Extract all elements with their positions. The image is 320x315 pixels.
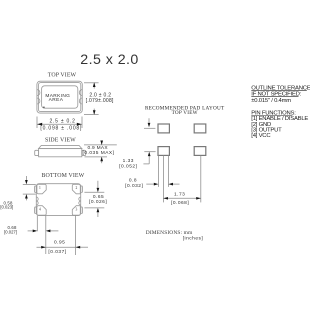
pad layout BL pad ext lines bbox=[157, 155, 159, 187]
bottom dim line bbox=[37, 123, 82, 125]
svg-text:2.5 ± 0.2: 2.5 ± 0.2 bbox=[50, 119, 76, 125]
0.95 dim lines bbox=[37, 246, 76, 248]
svg-text:AREA: AREA bbox=[49, 97, 64, 103]
pad layout BR pad bbox=[194, 147, 206, 156]
arrowhead left (2.5 dim) bbox=[37, 123, 42, 126]
bottom dim ext lines of top view bbox=[36, 117, 38, 129]
svg-text:TOP VIEW: TOP VIEW bbox=[48, 72, 77, 78]
1.73 dim line bbox=[163, 197, 200, 199]
svg-text:0.8: 0.8 bbox=[129, 178, 137, 184]
1.33 centerline + leader bbox=[144, 151, 155, 153]
svg-text:2: 2 bbox=[76, 186, 78, 190]
svg-text:4: 4 bbox=[39, 208, 41, 212]
svg-text:[0.068]: [0.068] bbox=[171, 200, 189, 206]
dim arrow stems bbox=[93, 83, 95, 89]
pad 4 bbox=[37, 206, 46, 216]
bottom view right tabs bbox=[81, 186, 83, 193]
0.68 arrowheads bbox=[33, 230, 38, 233]
underlines bbox=[251, 89, 306, 91]
top view inner outline bbox=[38, 83, 80, 112]
pad 3 bbox=[72, 206, 80, 216]
top view left castellation notches bbox=[37, 90, 40, 104]
0.8 dim lines bbox=[146, 183, 154, 185]
svg-text:±0.015" / 0.4mm: ±0.015" / 0.4mm bbox=[251, 98, 291, 104]
pad layout BR pad center line bbox=[200, 155, 202, 202]
top view right castellation notches bbox=[79, 90, 82, 104]
arrowhead down (2.0 dim) bbox=[93, 110, 96, 115]
top view outer body bbox=[37, 81, 82, 113]
svg-text:[inches]: [inches] bbox=[183, 236, 204, 242]
svg-text:2.5 x 2.0: 2.5 x 2.0 bbox=[80, 52, 138, 68]
svg-text:1: 1 bbox=[39, 186, 41, 190]
svg-text:1.73: 1.73 bbox=[174, 191, 185, 197]
top view marking area bbox=[42, 86, 78, 108]
svg-text:[0.026]: [0.026] bbox=[89, 199, 107, 205]
svg-text:SIDE VIEW: SIDE VIEW bbox=[45, 138, 76, 144]
svg-text:[.079±.008]: [.079±.008] bbox=[86, 98, 114, 104]
top-left centerline mark bbox=[148, 118, 150, 123]
side arrowhead down bbox=[100, 141, 103, 145]
svg-text:[4] VCC: [4] VCC bbox=[251, 133, 271, 139]
bottom view left notches bbox=[36, 197, 38, 205]
svg-text:[0.037]: [0.037] bbox=[48, 249, 66, 255]
svg-text:[0.032]: [0.032] bbox=[125, 183, 143, 189]
pad layout TL pad bbox=[158, 124, 169, 133]
svg-text:[0.098 ± .008]: [0.098 ± .008] bbox=[40, 126, 82, 132]
0.65 dim ext bbox=[84, 191, 104, 193]
0.65 arrowheads bbox=[97, 188, 100, 192]
bottom view right notches bbox=[79, 197, 81, 205]
centerline mark arrowhead bbox=[148, 123, 151, 127]
side view right tab bbox=[82, 150, 86, 155]
bottom view left tabs bbox=[35, 186, 37, 193]
svg-text:[0.027]: [0.027] bbox=[4, 229, 17, 234]
0.68 dim lines bbox=[28, 230, 33, 232]
arrowhead right (2.5 dim) bbox=[77, 123, 82, 126]
0.58 dim bbox=[25, 176, 27, 180]
svg-text:DIMENSIONS: mm: DIMENSIONS: mm bbox=[146, 230, 193, 236]
dim ext lines right of top view bbox=[84, 82, 99, 84]
bottom view lower ext lines bbox=[36, 216, 38, 232]
1.73 arrowheads bbox=[163, 197, 168, 200]
side view body bbox=[39, 149, 82, 157]
svg-text:[0.052]: [0.052] bbox=[119, 164, 137, 170]
pad layout BL pad bbox=[158, 147, 169, 156]
side view lid bbox=[39, 145, 82, 148]
0.58 arrowheads bbox=[25, 180, 28, 184]
svg-text:[0.035 MAX]: [0.035 MAX] bbox=[83, 150, 115, 156]
svg-text:BOTTOM VIEW: BOTTOM VIEW bbox=[41, 173, 84, 179]
side dim arrow stems bbox=[101, 141, 103, 145]
pad 1 bbox=[37, 184, 46, 194]
side view left tab bbox=[35, 150, 39, 155]
svg-text:1.33: 1.33 bbox=[123, 158, 134, 164]
pad 2 bbox=[72, 184, 80, 194]
0.8 arrowheads bbox=[154, 183, 159, 186]
bottom view body bbox=[36, 184, 80, 216]
arrowhead up (2.0 dim) bbox=[93, 82, 96, 87]
1.33 arrowhead bbox=[148, 152, 151, 156]
svg-text:[0.023]: [0.023] bbox=[0, 205, 13, 210]
svg-text:0.95: 0.95 bbox=[54, 240, 65, 246]
svg-text:3: 3 bbox=[76, 208, 78, 212]
side arrowhead up bbox=[100, 157, 103, 161]
svg-text:TOP VIEW: TOP VIEW bbox=[172, 110, 198, 116]
pin 1 dot bbox=[43, 107, 44, 108]
0.95 arrowheads bbox=[41, 246, 46, 249]
pad layout TR pad bbox=[194, 124, 206, 133]
side dim ext lines bbox=[84, 144, 117, 146]
